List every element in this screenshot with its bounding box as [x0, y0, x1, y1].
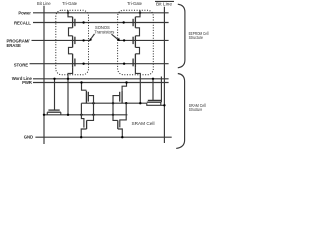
wire PWR rail — [33, 82, 169, 84]
node dot STORE right — [123, 63, 125, 65]
wire right chain top lead — [135, 10, 140, 16]
dotted box left tri-gate — [56, 10, 89, 75]
wire access left stub right — [60, 112, 62, 115]
arrow to left SONOS transistor — [91, 34, 95, 39]
svg-text:STORE: STORE — [14, 63, 28, 68]
transistor Q1 gate bar — [74, 19, 76, 26]
wire Power rail — [33, 12, 169, 14]
transistor NMOS left channel — [86, 120, 88, 129]
node dot STORE left — [82, 63, 84, 65]
node dot B x left output — [92, 102, 94, 104]
transistor left SONOS stack Q3 (STORE) channel — [72, 54, 74, 68]
svg-text:RECALL: RECALL — [14, 20, 31, 25]
svg-text:Power: Power — [18, 10, 31, 15]
dotted box right tri-gate — [118, 10, 154, 75]
wire RECALL line — [33, 22, 169, 24]
transistor right stack Q5 (PROGRAM/ERASE) channel — [134, 36, 136, 48]
wire NMOS right source to GND — [118, 129, 123, 137]
transistor PMOS right gate bar — [119, 92, 121, 102]
wire left chain output to node A — [68, 67, 73, 115]
wire node line A — [44, 114, 127, 116]
node dot word line x right access gate — [152, 78, 154, 80]
wire PROGRAM/ERASE line — [32, 39, 169, 41]
wire right NMOS gate line from node B — [120, 103, 126, 127]
node dot A x left gate line — [80, 114, 82, 116]
node dot B x right gate line — [125, 102, 127, 104]
wire PMOS left source from PWR — [82, 83, 87, 91]
wire bit line right vertical — [163, 7, 165, 143]
node dot B x right chain — [139, 102, 141, 104]
node dot RECALL left — [82, 21, 84, 23]
wire access left stub left — [46, 112, 48, 115]
wire Word Line rail — [33, 78, 169, 80]
svg-text:Structure: Structure — [189, 107, 203, 112]
transistor access left channel bar — [47, 111, 61, 113]
overline above right Bit Line label — [155, 0, 174, 2]
transistor access right channel bar — [147, 101, 162, 103]
wire NMOS left source to GND — [81, 129, 86, 137]
svg-text:Bit Line: Bit Line — [37, 1, 51, 6]
node dot Power x right chain — [139, 12, 141, 14]
brace SRAM Cell Structure — [176, 74, 184, 149]
wire node line B step down to bit line right — [147, 103, 165, 105]
svg-text:GND: GND — [24, 135, 33, 140]
node dot PROGRAM/ERASE right — [123, 39, 125, 41]
brace EEPROM Cell Structure — [178, 4, 185, 68]
wire link Q4-Q5 — [135, 28, 139, 36]
wire access right stub right — [160, 102, 162, 105]
transistor access right: gate lead — [152, 79, 154, 101]
transistor Q2 gate bar — [74, 37, 76, 44]
transistor right stack Q6 (STORE) channel — [134, 54, 136, 68]
wire link Q2-Q3 — [69, 47, 73, 53]
transistor left SONOS stack Q1 (RECALL) channel — [72, 17, 74, 28]
node dot GND x right NMOS source — [121, 136, 123, 138]
arrow to right SONOS transistor — [112, 34, 119, 39]
wire left chain top lead — [68, 10, 73, 16]
svg-text:PWR: PWR — [22, 80, 33, 85]
svg-text:ERASE: ERASE — [7, 43, 22, 48]
wire bit line left vertical — [43, 6, 45, 144]
node dot A x right output — [112, 114, 114, 116]
node dot A x left output — [92, 114, 94, 116]
transistor Q4 gate bar — [132, 19, 134, 26]
svg-text:Structure: Structure — [189, 35, 204, 40]
node dot B x bit line right — [163, 104, 165, 106]
wire left NMOS gate line from node B corner — [81, 103, 84, 127]
svg-text:Transistors: Transistors — [94, 29, 114, 34]
transistor Q6 gate bar — [132, 59, 134, 67]
transistor NMOS right channel — [117, 120, 119, 129]
svg-text:Bit Line: Bit Line — [156, 1, 172, 7]
wire right mid vertical (PMOS gate lead down to NMOS drain) — [113, 96, 120, 121]
node dot B x right mid vertical — [112, 102, 114, 104]
wire PMOS right source from PWR — [122, 83, 126, 91]
node dot PWR x left PMOS source — [80, 81, 82, 83]
node dot word line x left chain — [67, 78, 69, 80]
wire STORE line — [30, 63, 169, 65]
wire link Q1-Q2 — [69, 28, 73, 36]
svg-text:Tri-Gate: Tri-Gate — [127, 1, 143, 6]
node dot GND x left NMOS source — [80, 136, 82, 138]
node dot A x left chain — [67, 114, 69, 116]
transistor access left: gate lead — [54, 79, 56, 110]
node dot PROGRAM/ERASE left — [82, 39, 84, 41]
transistor access right gate bar — [148, 99, 161, 101]
transistor PMOS left gate bar — [87, 92, 89, 102]
transistor PMOS left: channel — [85, 91, 87, 104]
transistor left SONOS stack Q2 (PROGRAM/ERASE) channel — [72, 36, 74, 48]
transistor PMOS right channel — [121, 91, 123, 104]
transistor Q5 gate bar — [132, 37, 134, 44]
wire GND rail — [35, 136, 171, 138]
node dot PWR x right PMOS source — [125, 81, 127, 83]
wire link Q5-Q6 — [135, 47, 139, 53]
label SONOS Transistors (white backing box) — [90, 36, 117, 43]
wire right chain output to node B — [135, 67, 140, 103]
transistor Q3 gate bar — [74, 59, 76, 67]
wire node line B — [81, 102, 146, 104]
wire left mid vertical (PMOS gate lead down to NMOS drain) — [87, 96, 94, 121]
svg-text:SRAM Cell: SRAM Cell — [132, 121, 155, 126]
transistor access left gate bar — [48, 109, 59, 111]
node dot Power x left chain — [67, 12, 69, 14]
node dot A x bit line left — [43, 114, 45, 116]
wire right bit line upper branch — [160, 77, 162, 103]
svg-text:Tri-Gate: Tri-Gate — [62, 1, 78, 6]
transistor right stack Q4 (RECALL) channel — [134, 17, 136, 28]
node dot RECALL right — [123, 21, 125, 23]
node dot word line x left access gate — [53, 78, 55, 80]
